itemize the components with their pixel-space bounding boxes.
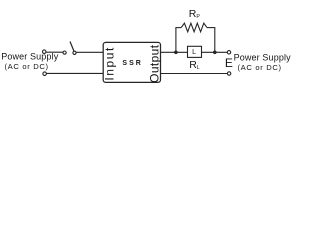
wire branch left vertical (node A up to resistor branch) xyxy=(175,28,177,53)
switch S1 left contact xyxy=(63,51,66,54)
SSR box U1 outline xyxy=(103,42,160,82)
switch S1 lever xyxy=(70,42,74,52)
terminal left bottom xyxy=(43,72,47,76)
terminal left top xyxy=(42,50,46,54)
wire branch right vertical (resistor branch down to node B) xyxy=(214,28,216,53)
svg-text:Power Supply: Power Supply xyxy=(1,52,59,62)
wire top-left segment A (left terminal to switch) xyxy=(46,51,63,53)
svg-text:SSR: SSR xyxy=(122,60,141,67)
terminal right top xyxy=(227,51,230,54)
svg-text:RP: RP xyxy=(189,8,201,20)
svg-text:(AC or DC): (AC or DC) xyxy=(238,63,282,72)
switch S1 right contact xyxy=(73,51,76,54)
node B junction dot xyxy=(213,51,217,55)
node A junction dot xyxy=(174,51,178,55)
load RL box xyxy=(188,46,202,57)
wire bottom-left (left terminal to SSR input) xyxy=(46,72,103,74)
svg-text:RL: RL xyxy=(189,59,200,71)
svg-text:E: E xyxy=(225,56,233,70)
wire top-right (SSR output to load network and right terminal) xyxy=(161,51,228,53)
svg-text:(AC or DC): (AC or DC) xyxy=(5,62,49,71)
wire top-left segment B (switch to SSR input) xyxy=(76,51,103,53)
wire bottom-right (SSR output to right terminal) xyxy=(161,73,228,75)
svg-text:Output: Output xyxy=(147,44,161,83)
svg-text:Power Supply: Power Supply xyxy=(234,52,291,62)
resistor RP zigzag xyxy=(181,23,207,32)
terminal right bottom xyxy=(227,72,230,75)
wire branch horizontal right xyxy=(207,27,215,29)
svg-text:L: L xyxy=(192,47,196,56)
wire branch horizontal left xyxy=(175,27,181,29)
